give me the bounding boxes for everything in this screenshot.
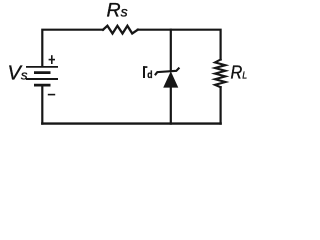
minus sign: [48, 94, 55, 96]
battery plate short bottom: [34, 84, 51, 87]
battery plate short upper: [34, 71, 51, 74]
svg-text:Rs: Rs: [107, 0, 128, 22]
battery V1 Vs plates: [26, 67, 58, 85]
zener triangle anode: [164, 72, 178, 87]
battery plate long top: [26, 66, 58, 68]
wire middle branch bottom: [170, 87, 172, 124]
label Id zener current: [143, 66, 153, 81]
resistor R1 Rs zigzag: [103, 26, 138, 34]
wire top-left segment: [42, 30, 103, 66]
diode D1 zener: [155, 68, 180, 88]
plus sign: [49, 55, 55, 64]
wire right-bottom segment: [220, 87, 222, 123]
zener cathode bar with bent ends: [155, 68, 180, 76]
svg-text:d: d: [147, 69, 152, 81]
battery plate long lower: [26, 78, 58, 80]
wire left-bottom segment: [41, 85, 43, 124]
svg-text:Vs: Vs: [8, 62, 28, 84]
svg-text:RL: RL: [231, 61, 248, 82]
wire top-right segment: [138, 30, 221, 60]
wire bottom: [42, 122, 220, 124]
resistor R2 RL zigzag: [215, 60, 225, 88]
wire middle branch top: [170, 30, 172, 71]
